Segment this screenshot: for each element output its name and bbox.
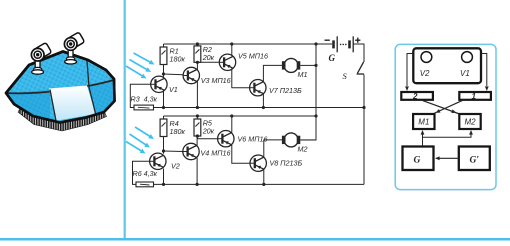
svg-text:V6 МП16: V6 МП16 (238, 135, 268, 144)
battery G (332, 36, 353, 52)
label R1 180k (170, 47, 186, 64)
node: V5 collector rail junction (230, 42, 233, 45)
wire: sensor box to block 2 (405, 54, 413, 92)
wire: G to M1 (421, 130, 425, 147)
phototransistor V2 (150, 153, 166, 169)
wire: block 2 to M2 (crossing) (421, 100, 460, 114)
svg-text:V1: V1 (169, 85, 178, 94)
wire: G-prime to G (435, 156, 459, 160)
switch S (357, 62, 364, 74)
svg-text:G: G (414, 156, 421, 166)
wire: V5 collector to top rail (231, 44, 233, 56)
node: V8 emitter junction (262, 183, 265, 186)
svg-text:V7 П213Б: V7 П213Б (269, 86, 302, 95)
node: R1/V1 collector/V3 base junction (162, 72, 165, 75)
wire: V3 emitter (196, 82, 198, 108)
resistor R5 (194, 116, 201, 136)
label R4 180k (170, 119, 186, 136)
transistor V8 (250, 155, 266, 171)
wire: channel-2 negative rail (164, 115, 317, 117)
transistor V6 (218, 131, 234, 147)
block diagram frame (395, 44, 496, 189)
transistor V7 (250, 80, 266, 96)
wire: V2 base to R6 (133, 161, 150, 184)
wire: M2 to negative bus (300, 139, 316, 141)
wire: sensor box to block 1 (481, 54, 489, 92)
node: R2 top junction (196, 42, 199, 45)
node: V1 emitter / R3 junction (162, 106, 165, 109)
svg-text:G: G (329, 53, 336, 63)
svg-text:R6 4,3к: R6 4,3к (133, 169, 158, 178)
battery minus sign (325, 39, 330, 41)
battery plus sign (355, 38, 360, 43)
wire: block 1 to M1 (crossing) (433, 100, 464, 114)
wire: V4 collector to R5 (196, 136, 198, 146)
node: V4 emitter junction (196, 183, 199, 186)
photo-robot illustration (6, 32, 115, 131)
svg-text:V2: V2 (171, 162, 180, 171)
wire: negative bus vertical to motors (300, 44, 316, 140)
wire: channel-1 emitter rail (154, 107, 365, 109)
block M1 (413, 114, 434, 129)
node: V6 collector rail junction (230, 114, 233, 117)
node: V2 emitter / R6 junction (162, 183, 165, 186)
node: M1 negative bus junction (314, 64, 317, 67)
node: top rail / negative bus junction (314, 42, 317, 45)
svg-text:180к: 180к (170, 55, 186, 64)
node: R5 bottom / V4 collector / V6 base junction (196, 134, 199, 137)
wire: channel-1 negative top rail (164, 43, 333, 45)
phototransistor V1 (151, 76, 167, 92)
wire: V8 emitter (263, 169, 265, 184)
svg-text:2: 2 (412, 92, 418, 101)
wire: V5 emitter to V7 base (232, 68, 250, 87)
motor M1 (282, 58, 300, 72)
light rays onto V2 (135, 127, 152, 137)
svg-text:V3 МП16: V3 МП16 (201, 76, 231, 85)
wire: G to M2 (423, 130, 473, 137)
label R5 20k (202, 119, 215, 136)
block: sensors box with V2 V1 (413, 48, 481, 83)
block G-prime (charger) (459, 147, 490, 171)
wire: M1 to negative bus (300, 64, 316, 66)
wire: V3 collector to R2 (196, 62, 198, 70)
svg-text:V1: V1 (460, 69, 470, 78)
svg-text:М1: М1 (298, 70, 308, 79)
svg-text:М2: М2 (298, 145, 308, 154)
svg-text:20к: 20к (202, 53, 215, 62)
wire: V7 collector to M1 (263, 65, 282, 81)
light rays onto V1 (134, 53, 152, 63)
wire: V1 emitter (163, 92, 165, 108)
wire: V6 base (197, 136, 217, 139)
node: R2 bottom / V3 collector / V5 base junction (196, 61, 199, 64)
node: R5 top junction (196, 114, 199, 117)
wire: V2 collector to R4 (163, 137, 165, 154)
wire: V4 emitter (196, 158, 198, 185)
svg-text:V4 МП16: V4 МП16 (201, 149, 231, 158)
wire: bottom emitter rail (154, 183, 365, 185)
resistor R3 (134, 105, 154, 110)
wire: V8 collector to M2 (264, 140, 282, 157)
wire: V5 base (197, 61, 219, 63)
label R2 20k (202, 45, 215, 62)
node: emitter rail / right rail junction (362, 106, 365, 109)
svg-text:V2: V2 (420, 69, 430, 78)
node: R4 / V2 collector / V4 base junction (162, 149, 165, 152)
transistor V4 (183, 143, 199, 159)
node: V7 emitter junction (262, 106, 265, 109)
wire: battery positive lead and right rail (upper) (353, 44, 364, 62)
svg-text:1: 1 (472, 92, 477, 101)
svg-text:20к: 20к (202, 127, 215, 136)
node: channel-2 rail / negative bus junction (314, 114, 317, 117)
wire: V7 emitter (262, 94, 264, 108)
node: V3 emitter junction (196, 106, 199, 109)
resistor R2 (194, 44, 201, 62)
svg-text:М1: М1 (418, 118, 429, 127)
wire: V1 base to R3 (130, 84, 150, 107)
resistor R6 (136, 182, 154, 187)
svg-text:V8 П213Б: V8 П213Б (270, 159, 303, 168)
wire: V2 emitter (163, 169, 165, 185)
svg-text:R3 4,3к: R3 4,3к (131, 95, 158, 104)
wire: V3 base (164, 73, 184, 76)
resistor R1 (160, 44, 167, 77)
block 2 (401, 92, 433, 100)
wire: V6 emitter to V8 base (232, 145, 250, 163)
transistor V3 (183, 67, 199, 83)
block G (power) (403, 147, 434, 171)
wire: V4 base (164, 150, 183, 153)
block M2 (459, 114, 480, 129)
block 1 (459, 92, 491, 100)
svg-text:180к: 180к (170, 127, 186, 136)
svg-text:V5 МП16: V5 МП16 (238, 52, 268, 61)
wire: V6 collector to rail (231, 116, 233, 133)
wire: right rail (lower) (363, 75, 365, 185)
transistor V5 (219, 54, 235, 70)
wire: V1 collector (163, 65, 165, 77)
svg-text:G′: G′ (470, 156, 480, 166)
resistor R4 (160, 116, 167, 137)
motor M2 (282, 133, 300, 147)
svg-text:М2: М2 (465, 118, 477, 127)
